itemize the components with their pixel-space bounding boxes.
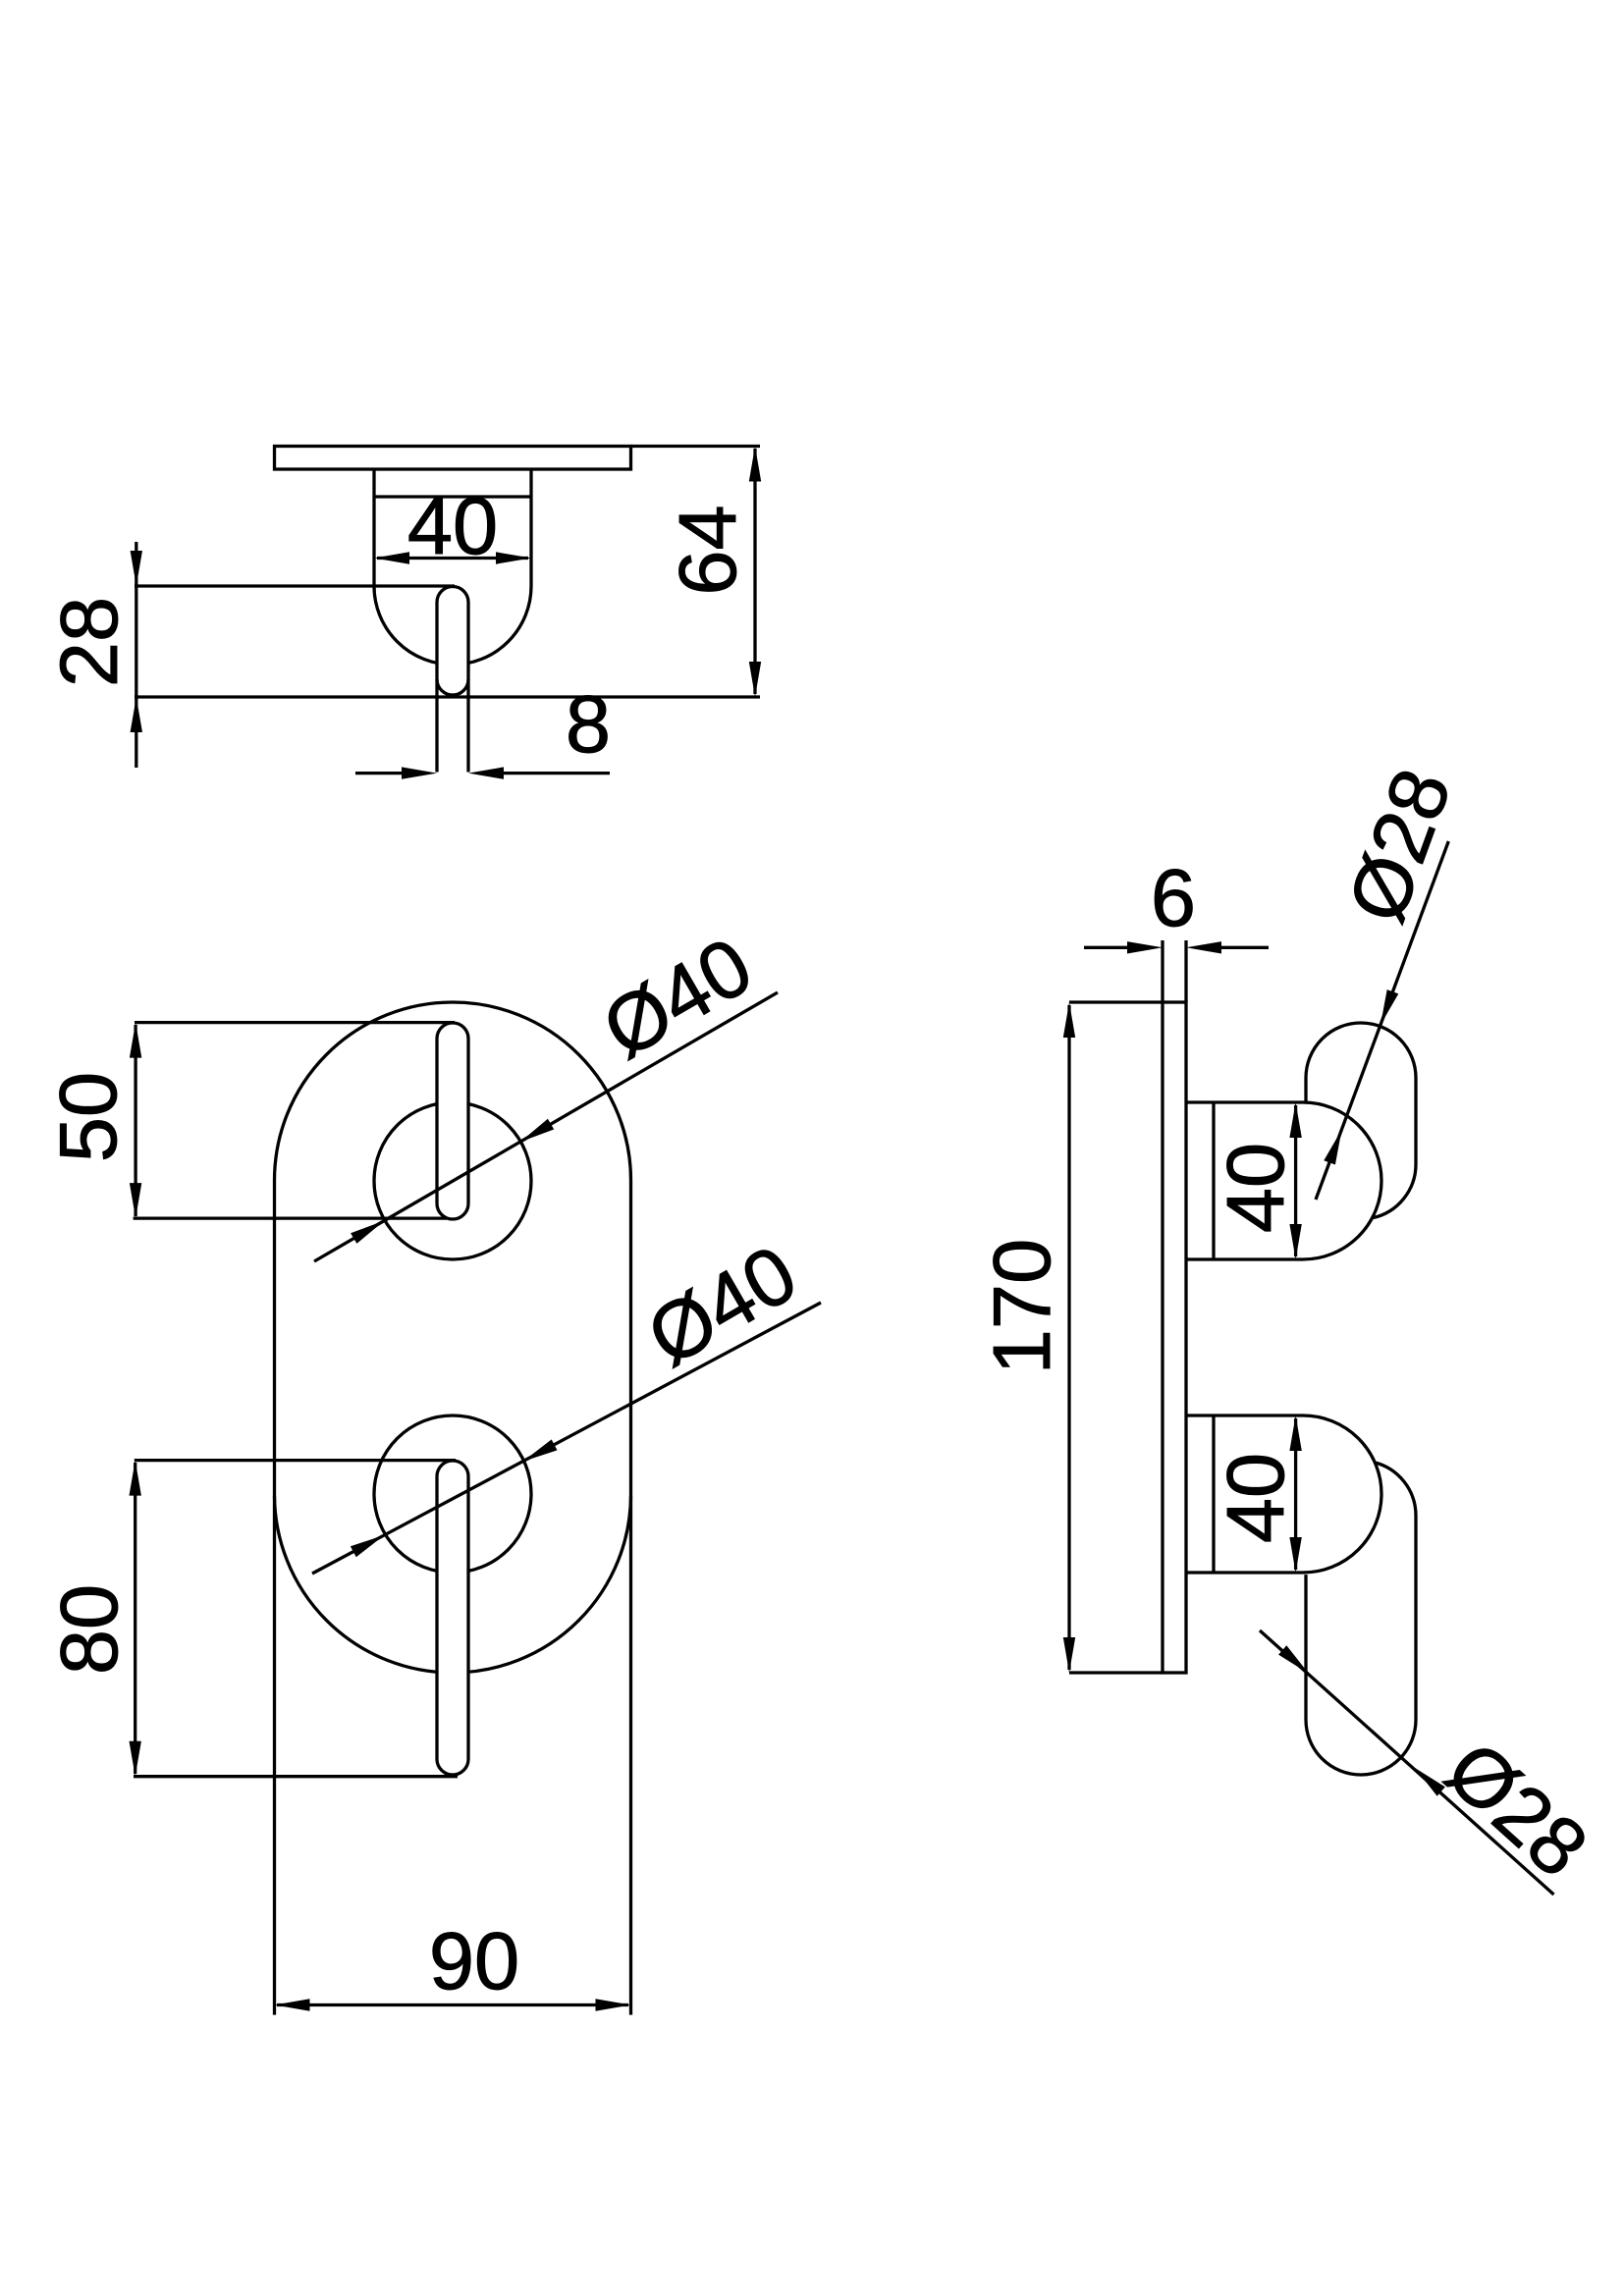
dimension 80 extension bottom (134, 1775, 458, 1778)
wall plate oval (front view) (275, 1002, 631, 1673)
upper handle collar (side view) (1186, 1100, 1303, 1103)
dimension 64 extension top (631, 445, 761, 448)
dimension 50 arrows (130, 1023, 141, 1058)
dimension 40 lower arrows (side view) (1289, 1415, 1301, 1451)
dimension 6 line right (1221, 946, 1269, 949)
dimension 50 extension top (135, 1021, 455, 1024)
dimension 80 extension top (135, 1459, 456, 1462)
dimension 80 line (134, 1463, 136, 1774)
dimension 170 extension top (1069, 1000, 1163, 1003)
upper lever slot (front view) (437, 1023, 468, 1219)
dimension 170 arrows (1063, 1002, 1075, 1038)
diameter 40 upper arrows (520, 1119, 554, 1142)
dimension 90 line (277, 2003, 628, 2006)
handle collar joint line (top view) (374, 495, 531, 498)
dimension 40 upper arrows (side view) (1289, 1102, 1301, 1138)
diameter 28 upper leader (1316, 841, 1448, 1200)
dimension 170 line (1067, 1005, 1070, 1670)
dimension 50 line (134, 1025, 136, 1216)
dimension 80 arrows (130, 1461, 141, 1496)
diameter 40 leader lower knob (312, 1303, 821, 1574)
lower handle dome arc (side view) (1303, 1415, 1381, 1573)
dimension 90 extension right (629, 1496, 632, 2015)
diameter 40 lower arrows (523, 1439, 558, 1461)
plate extension lines for 6 (1161, 940, 1164, 1002)
dimension 6 arrows (1127, 941, 1163, 953)
dimension 64/28 extension bottom (135, 695, 760, 698)
svg-text:90: 90 (429, 1915, 519, 2006)
lower handle collar (side view) (1186, 1414, 1303, 1416)
dimension 40 lower line (side view) (1294, 1418, 1297, 1570)
svg-text:40: 40 (407, 480, 498, 571)
dimension 64 line (753, 449, 756, 694)
svg-text:8: 8 (566, 678, 611, 770)
diameter 28 lower arrows (1278, 1645, 1309, 1674)
upper handle dome arc (side view) (1303, 1102, 1381, 1259)
upper knob circle (front view) (374, 1102, 531, 1259)
dimension 8 arrows (402, 767, 437, 778)
svg-text:40: 40 (1210, 1453, 1301, 1543)
lower knob circle (front view) (374, 1415, 531, 1573)
svg-text:170: 170 (976, 1239, 1067, 1374)
svg-text:40: 40 (1210, 1143, 1301, 1233)
dimension 6 line left (1084, 946, 1127, 949)
dimension 170 extension bottom (1069, 1671, 1163, 1674)
escutcheon plate (top view) (275, 447, 631, 470)
dimension 8 line left (355, 772, 403, 774)
dimension 64 arrows (749, 447, 761, 482)
dimension 90 extension left (273, 1496, 276, 2015)
dimension 40 line (top view) (377, 557, 528, 560)
svg-text:28: 28 (43, 597, 135, 687)
dimension 90 arrows (275, 1999, 310, 2010)
dimension 28 line (135, 542, 137, 768)
dimension 50 extension bottom (134, 1216, 447, 1219)
diameter 40 leader upper knob (314, 992, 778, 1261)
svg-text:50: 50 (42, 1072, 134, 1162)
wall plate (side view) (1163, 1002, 1186, 1673)
dimension 28 arrows (131, 551, 142, 586)
diameter 28 upper arrows (1380, 989, 1398, 1025)
svg-text:64: 64 (662, 505, 753, 595)
upper lever (side view) (1306, 1023, 1416, 1218)
lower lever slot (front view) (437, 1461, 468, 1775)
dimension 8 line right (503, 772, 610, 774)
diameter 28 lower leader (1260, 1630, 1554, 1895)
dimension 40 arrows (374, 552, 409, 563)
lower lever (side view) (1306, 1463, 1416, 1775)
dimension 40 upper line (side view) (1294, 1105, 1297, 1256)
handle body (top view) (374, 469, 531, 665)
svg-text:80: 80 (43, 1584, 135, 1675)
svg-text:6: 6 (1151, 852, 1196, 943)
dimension 28 extension top (135, 584, 455, 587)
lever slot and stem (top view) (437, 587, 468, 696)
